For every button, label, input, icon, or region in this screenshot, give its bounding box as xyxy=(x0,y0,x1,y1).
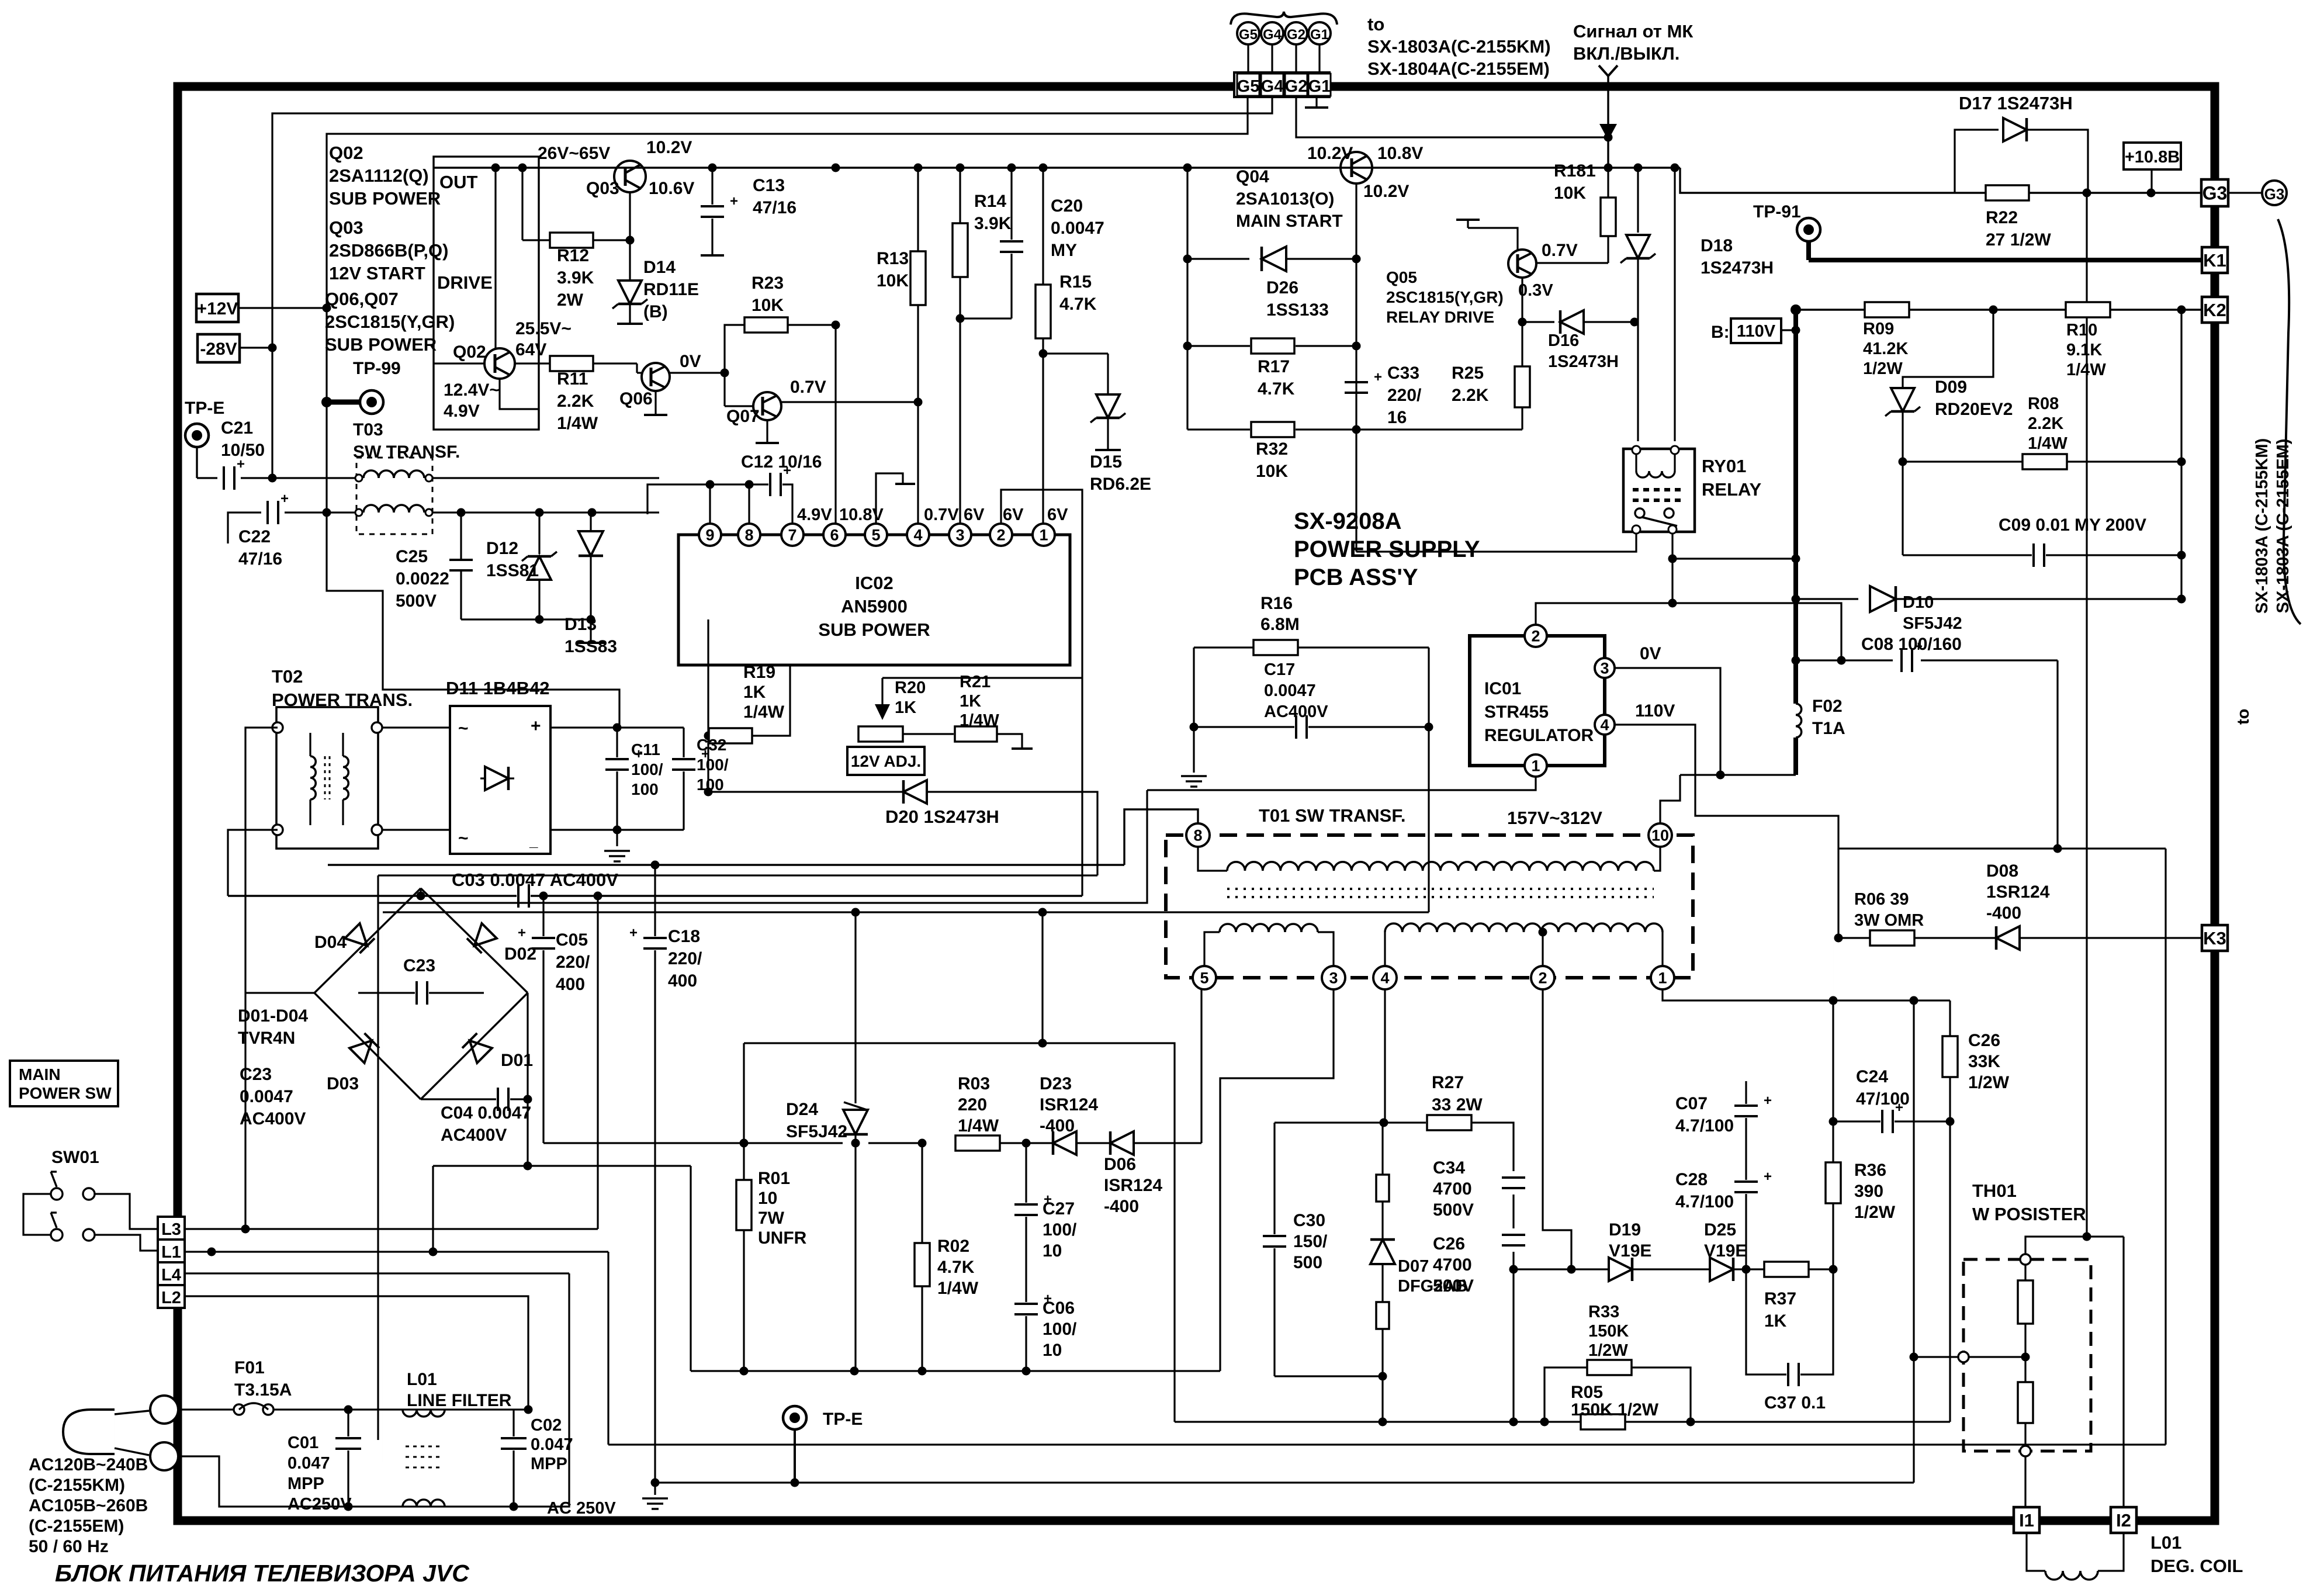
svg-text:100: 100 xyxy=(697,776,724,794)
svg-text:D12: D12 xyxy=(486,539,518,558)
wire D06 riser to T01 pin5 xyxy=(1200,989,1202,1143)
right edge brace xyxy=(2278,219,2301,624)
svg-text:110V: 110V xyxy=(1737,322,1776,341)
capacitor C07 4.7/100 xyxy=(1745,1081,1747,1104)
wire AC net upper long line xyxy=(328,864,1124,865)
transistor Q07 xyxy=(753,392,781,420)
svg-text:C12 10/16: C12 10/16 xyxy=(741,452,822,472)
zener D09 RD20EV2 xyxy=(1891,388,1914,411)
svg-text:1K: 1K xyxy=(960,692,981,711)
svg-text:D14: D14 xyxy=(643,258,676,277)
svg-text:L01: L01 xyxy=(407,1370,437,1389)
connector box L1 xyxy=(158,1240,185,1262)
T03 winding lower xyxy=(355,509,362,516)
potentiometer R20 1K xyxy=(858,726,903,742)
capacitor C28 4.7/100 xyxy=(1734,1180,1758,1183)
svg-text:400: 400 xyxy=(668,971,697,991)
svg-text:0.0022: 0.0022 xyxy=(396,569,449,588)
svg-text:400: 400 xyxy=(556,975,585,994)
connector box I1 xyxy=(2014,1507,2039,1533)
diode D23 ISR124-400 xyxy=(1028,1142,1052,1144)
svg-text:D10: D10 xyxy=(1903,593,1934,612)
svg-text:D20 1S2473H: D20 1S2473H xyxy=(885,806,999,827)
svg-text:0.047: 0.047 xyxy=(288,1454,330,1473)
wire L4 line xyxy=(185,1272,569,1274)
svg-text:_: _ xyxy=(529,832,538,850)
wire R20 feed from pin2 net xyxy=(882,677,1082,678)
voltage box +12V xyxy=(196,294,238,322)
svg-text:1/4W: 1/4W xyxy=(937,1279,979,1298)
svg-text:I1: I1 xyxy=(2019,1510,2034,1531)
svg-text:UNFR: UNFR xyxy=(758,1228,807,1248)
svg-text:220/: 220/ xyxy=(556,953,590,972)
svg-text:R25: R25 xyxy=(1452,363,1484,383)
transistor Q06 xyxy=(642,363,670,391)
capacitor C21 xyxy=(197,477,217,479)
svg-text:DRIVE: DRIVE xyxy=(437,272,493,293)
svg-text:БЛОК ПИТАНИЯ ТЕЛЕВИЗОРА JVC: БЛОК ПИТАНИЯ ТЕЛЕВИЗОРА JVC xyxy=(55,1560,470,1587)
svg-text:D18: D18 xyxy=(1701,236,1733,255)
diode D04 xyxy=(345,923,375,953)
wire staircase T03 to D11 xyxy=(327,513,619,728)
svg-text:3W OMR: 3W OMR xyxy=(1854,911,1924,930)
wire D24 column to return xyxy=(854,1143,856,1371)
svg-text:10: 10 xyxy=(1651,827,1669,844)
TH01 top terminal xyxy=(2020,1254,2031,1265)
IC IC02 AN5900 SUB POWER xyxy=(678,535,1070,665)
diode D19 V19E xyxy=(1514,1268,1608,1270)
switch SW01 upper xyxy=(51,1188,63,1200)
wire bridge left arm xyxy=(245,992,314,993)
svg-text:SX-1803A(C-2155KM): SX-1803A(C-2155KM) xyxy=(1367,36,1551,57)
test point TP-E left xyxy=(185,424,209,447)
svg-text:+: + xyxy=(237,456,245,472)
svg-text:0.0047: 0.0047 xyxy=(1051,219,1104,238)
svg-text:RD6.2E: RD6.2E xyxy=(1090,475,1151,494)
T01 pin 5 xyxy=(1193,966,1216,989)
resistor R23 xyxy=(725,325,744,373)
svg-text:RD11E: RD11E xyxy=(643,280,699,299)
wire -28V xyxy=(240,347,272,348)
svg-text:2SC1815(Y,GR): 2SC1815(Y,GR) xyxy=(325,311,455,332)
svg-text:SF5J42: SF5J42 xyxy=(786,1122,847,1141)
svg-text:R01: R01 xyxy=(758,1169,790,1188)
connector box K3 xyxy=(2202,925,2228,951)
svg-text:R14: R14 xyxy=(974,192,1006,211)
svg-text:K1: K1 xyxy=(2203,250,2226,271)
connector box G3 xyxy=(2201,179,2228,206)
capacitor C17 xyxy=(1193,648,1194,727)
svg-text:1: 1 xyxy=(1531,757,1540,775)
svg-text:L3: L3 xyxy=(161,1220,181,1239)
svg-text:220/: 220/ xyxy=(668,949,702,968)
svg-text:C02: C02 xyxy=(531,1416,562,1435)
wire pin2 to adjust network xyxy=(1001,490,1082,896)
diode D25 V19E xyxy=(1633,1268,1709,1270)
resistor R22 on G3 line xyxy=(1955,192,1985,193)
svg-text:C23: C23 xyxy=(403,956,435,975)
wire pin5 stub xyxy=(876,473,903,524)
capacitor C22 xyxy=(228,513,261,543)
svg-text:R13: R13 xyxy=(877,249,909,268)
svg-text:10.2V: 10.2V xyxy=(1307,144,1353,163)
resistor R37 1K xyxy=(1746,1268,1764,1270)
svg-text:R10: R10 xyxy=(2066,321,2097,340)
resistor R09 xyxy=(1865,302,1909,317)
svg-text:4: 4 xyxy=(1600,716,1609,734)
svg-text:R06 39: R06 39 xyxy=(1854,890,1909,909)
svg-text:500V: 500V xyxy=(1433,1200,1474,1220)
border terminal circles xyxy=(150,1396,178,1424)
svg-text:C32: C32 xyxy=(697,736,726,754)
wire bridge return line xyxy=(433,1165,691,1166)
wire B+ thick bus xyxy=(1793,310,1798,704)
svg-text:D19: D19 xyxy=(1609,1220,1641,1240)
wire F02 0V return xyxy=(1680,774,1796,776)
svg-text:500V: 500V xyxy=(396,591,437,611)
resistor R05 150K 1/2W xyxy=(1581,1414,1625,1429)
TH01 resistor lower xyxy=(2024,1357,2026,1383)
svg-text:+: + xyxy=(518,925,526,941)
svg-text:C21: C21 xyxy=(221,418,253,438)
deg coil L01 xyxy=(2027,1533,2045,1571)
diode D17 1S2473H xyxy=(1955,130,1999,193)
diode D01 xyxy=(462,1033,492,1063)
svg-text:8: 8 xyxy=(744,527,753,544)
svg-text:500: 500 xyxy=(1293,1253,1322,1272)
svg-text:MY: MY xyxy=(1051,241,1077,260)
wire C30 bottom xyxy=(1275,1375,1383,1377)
wire Q07 base xyxy=(723,373,725,406)
svg-text:150/: 150/ xyxy=(1293,1232,1328,1251)
svg-text:G4: G4 xyxy=(1263,27,1282,43)
svg-text:DEG. COIL: DEG. COIL xyxy=(2150,1556,2243,1576)
wire rail to G3 line xyxy=(1680,168,1955,193)
svg-text:W POSISTER: W POSISTER xyxy=(1972,1204,2086,1224)
svg-text:C18: C18 xyxy=(668,927,700,946)
wire Q02 emitter path xyxy=(500,379,539,430)
diode D07 DFG2AB with fusibles xyxy=(1381,1123,1383,1175)
T01 pin 4 xyxy=(1373,966,1397,989)
svg-text:C20: C20 xyxy=(1051,196,1083,216)
TH01 tap xyxy=(1958,1352,1969,1362)
svg-text:Q02: Q02 xyxy=(453,342,486,362)
svg-text:+: + xyxy=(1764,1169,1772,1185)
svg-text:+10.8В: +10.8В xyxy=(2125,148,2180,167)
wire +12V xyxy=(238,307,327,309)
wire SW01 connections xyxy=(23,1194,51,1235)
svg-text:C23: C23 xyxy=(240,1065,272,1084)
capacitor C33 xyxy=(1345,381,1368,383)
wire T02 to D11 xyxy=(382,726,450,728)
resistor R27 33 2W xyxy=(1427,1115,1471,1130)
svg-text:0.7V: 0.7V xyxy=(924,506,959,524)
wire mid long line 2 xyxy=(378,874,1097,876)
svg-text:D15: D15 xyxy=(1090,452,1122,472)
diode D26 1SS133 xyxy=(1187,258,1249,259)
svg-text:G4: G4 xyxy=(1261,77,1284,96)
svg-text:T3.15A: T3.15A xyxy=(234,1380,292,1400)
wire to I2 xyxy=(2122,1237,2124,1508)
wire C08 right leg to 110V xyxy=(2056,660,2058,849)
connector circle G2 xyxy=(1285,22,1307,44)
wire 110V down to K3 line xyxy=(1837,849,1839,938)
svg-text:AC400V: AC400V xyxy=(1264,702,1328,721)
wire snubber distribution line xyxy=(543,1142,843,1144)
IC01 pin 4 xyxy=(1595,715,1615,735)
svg-text:12V ADJ.: 12V ADJ. xyxy=(851,752,921,770)
svg-text:D17 1S2473H: D17 1S2473H xyxy=(1959,93,2073,113)
fuse F02 T1A xyxy=(1796,704,1802,738)
connector circle G1 xyxy=(1308,22,1331,44)
svg-text:R23: R23 xyxy=(751,273,784,293)
svg-text:500V: 500V xyxy=(1433,1276,1474,1296)
svg-text:3.9K: 3.9K xyxy=(974,214,1012,233)
svg-text:4: 4 xyxy=(1380,970,1389,987)
svg-text:C28: C28 xyxy=(1675,1170,1708,1189)
svg-text:1SS83: 1SS83 xyxy=(565,637,617,656)
svg-text:5: 5 xyxy=(1200,970,1208,987)
svg-text:Q04: Q04 xyxy=(1236,167,1269,186)
svg-text:TP-99: TP-99 xyxy=(353,359,401,378)
resistor C26 33K 1/2W xyxy=(1949,1000,1951,1036)
svg-text:1: 1 xyxy=(1658,970,1667,987)
diode D20 1S2473H xyxy=(708,791,902,792)
wire bottom bus 2 xyxy=(656,1481,1914,1483)
svg-text:7W: 7W xyxy=(758,1209,785,1228)
wire K2 line xyxy=(1796,309,2201,310)
resistor R08 xyxy=(1903,461,2023,462)
svg-text:STR455: STR455 xyxy=(1484,702,1549,722)
svg-text:4.7K: 4.7K xyxy=(1059,295,1097,314)
wire T03 upper output xyxy=(429,477,659,479)
wire T01 pin4 column xyxy=(1384,989,1386,1123)
transistor Q05 relay drive xyxy=(1508,250,1536,278)
svg-text:4700: 4700 xyxy=(1433,1179,1472,1199)
resistor R10 xyxy=(2066,302,2110,317)
mains plug xyxy=(63,1410,115,1454)
svg-text:Q03: Q03 xyxy=(586,179,619,198)
wire L3 riser to AC bus xyxy=(597,896,598,1229)
svg-text:AC400V: AC400V xyxy=(441,1126,507,1145)
wire net G2 to on/off signal xyxy=(1296,97,1608,137)
svg-text:D24: D24 xyxy=(786,1100,818,1119)
svg-text:SX-1803A (C-2155EM): SX-1803A (C-2155EM) xyxy=(2274,439,2292,614)
svg-text:6: 6 xyxy=(830,527,839,544)
svg-text:C13: C13 xyxy=(753,176,785,195)
wire IC01 pin3 0V xyxy=(1615,668,1720,775)
capacitor C05 220/400 xyxy=(542,896,544,936)
svg-text:390: 390 xyxy=(1854,1182,1883,1201)
svg-text:-28V: -28V xyxy=(200,340,237,359)
svg-text:1SS133: 1SS133 xyxy=(1266,300,1329,320)
resistor R13 xyxy=(917,168,919,251)
resistor R32 xyxy=(1187,428,1250,430)
resistor R11 xyxy=(515,362,550,364)
svg-text:C33: C33 xyxy=(1387,363,1419,383)
wire left riser lines xyxy=(377,875,379,1440)
svg-text:C09 0.01 MY 200V: C09 0.01 MY 200V xyxy=(1999,515,2146,535)
svg-text:1/2W: 1/2W xyxy=(1968,1073,2010,1092)
svg-text:1S2473H: 1S2473H xyxy=(1548,352,1619,371)
svg-text:R12: R12 xyxy=(557,246,589,265)
relay coil xyxy=(1636,471,1675,477)
switch SW01 lower xyxy=(51,1229,63,1241)
svg-text:SW01: SW01 xyxy=(51,1148,99,1167)
svg-text:SUB POWER: SUB POWER xyxy=(818,619,930,640)
svg-text:REGULATOR: REGULATOR xyxy=(1484,726,1594,745)
svg-text:1/2W: 1/2W xyxy=(1588,1341,1628,1360)
svg-text:R17: R17 xyxy=(1258,357,1290,376)
svg-text:R21: R21 xyxy=(960,673,991,691)
svg-text:10.2V: 10.2V xyxy=(1363,182,1409,201)
transistor Q03 xyxy=(614,161,646,192)
resistor R17 xyxy=(1187,345,1250,347)
svg-text:D26: D26 xyxy=(1266,278,1298,297)
svg-text:Q07: Q07 xyxy=(726,407,760,426)
svg-text:IC01: IC01 xyxy=(1484,679,1521,698)
T01 primary winding xyxy=(1198,847,1227,871)
svg-text:4.9V: 4.9V xyxy=(444,401,480,421)
svg-text:33 2W: 33 2W xyxy=(1432,1095,1483,1114)
label box MAIN POWER SW xyxy=(10,1061,118,1106)
svg-text:Q06,Q07: Q06,Q07 xyxy=(325,289,399,309)
wire relay bottom-right xyxy=(1671,534,1673,603)
svg-text:C04 0.0047: C04 0.0047 xyxy=(441,1103,531,1123)
svg-text:1K: 1K xyxy=(895,698,916,717)
svg-text:16: 16 xyxy=(1387,408,1407,427)
svg-text:150K 1/2W: 150K 1/2W xyxy=(1571,1400,1659,1420)
wire bottom bus 1 xyxy=(608,1443,2166,1445)
svg-text:2SD866B(P,Q): 2SD866B(P,Q) xyxy=(329,240,448,261)
capacitor C18 220/400 xyxy=(654,865,656,936)
svg-text:10.6V: 10.6V xyxy=(649,179,694,198)
wire 110V right drop xyxy=(2165,849,2166,1445)
svg-text:-400: -400 xyxy=(1040,1116,1075,1135)
svg-text:6V: 6V xyxy=(1003,506,1024,524)
svg-text:D07: D07 xyxy=(1398,1257,1429,1276)
resistor R03 220 1/4W xyxy=(955,1135,1000,1151)
IC01 pin 1 xyxy=(1525,754,1547,777)
svg-text:2: 2 xyxy=(996,527,1005,544)
capacitor C24 47/100 xyxy=(1833,1120,1881,1122)
test point TP-99 xyxy=(327,400,360,405)
capacitor C30 150/500 xyxy=(1273,1123,1275,1234)
svg-text:PCB ASS'Y: PCB ASS'Y xyxy=(1294,565,1418,590)
svg-text:+: + xyxy=(730,193,738,209)
svg-text:D23: D23 xyxy=(1040,1074,1072,1093)
svg-text:T1A: T1A xyxy=(1812,719,1845,738)
wire AC net lower line with C03 xyxy=(228,895,517,896)
svg-text:C30: C30 xyxy=(1293,1211,1325,1230)
svg-text:Q06: Q06 xyxy=(619,389,653,408)
resistor R02 4.7K xyxy=(921,1143,923,1243)
transformer T01 dashed box xyxy=(1166,835,1693,978)
svg-text:TVR4N: TVR4N xyxy=(238,1029,295,1048)
wire K2 node drop column xyxy=(2180,310,2182,599)
svg-text:AN5900: AN5900 xyxy=(841,596,908,617)
svg-text:F02: F02 xyxy=(1812,697,1843,716)
svg-text:MPP: MPP xyxy=(288,1474,324,1493)
svg-text:V19E: V19E xyxy=(1609,1241,1651,1261)
svg-text:2SA1112(Q): 2SA1112(Q) xyxy=(329,165,429,186)
svg-text:~: ~ xyxy=(458,829,469,848)
svg-text:R22: R22 xyxy=(1986,208,2018,227)
svg-text:C24: C24 xyxy=(1856,1067,1888,1086)
svg-text:SX-9208A: SX-9208A xyxy=(1294,508,1402,534)
wire +10.8 drop to posistor top xyxy=(2086,193,2087,1237)
T01 secondary right winding xyxy=(1384,932,1386,966)
svg-text:2SA1013(O): 2SA1013(O) xyxy=(1236,189,1334,209)
svg-text:4.9V: 4.9V xyxy=(797,506,832,524)
svg-text:41.2K: 41.2K xyxy=(1863,340,1908,358)
svg-text:5: 5 xyxy=(871,527,880,544)
IC01 pin 2 xyxy=(1525,625,1547,647)
svg-text:0V: 0V xyxy=(1640,644,1661,663)
wire relay bottom-left return xyxy=(1356,534,1636,552)
wire tap column to TH01 xyxy=(1913,1000,1914,1483)
capacitor C27 100/10 xyxy=(1025,1143,1027,1203)
resistor R21 1K xyxy=(903,733,954,735)
svg-text:10: 10 xyxy=(1043,1241,1062,1261)
wire C26 bottom to return xyxy=(1512,1269,1514,1422)
svg-text:G5: G5 xyxy=(1239,27,1258,43)
svg-text:D13: D13 xyxy=(565,615,597,634)
svg-text:MAIN START: MAIN START xyxy=(1236,212,1343,231)
connector box L3 xyxy=(158,1217,185,1240)
wire bottom return wire xyxy=(691,1370,1220,1372)
svg-text:R05: R05 xyxy=(1571,1383,1603,1402)
svg-text:TH01: TH01 xyxy=(1972,1180,2017,1201)
svg-text:-400: -400 xyxy=(1986,903,2021,923)
T02 windings xyxy=(309,733,311,756)
svg-text:1SS81: 1SS81 xyxy=(486,561,539,580)
svg-text:T03: T03 xyxy=(353,420,383,439)
svg-text:0.0047: 0.0047 xyxy=(1264,681,1316,700)
wire bridge apex to AC line xyxy=(420,888,421,896)
capacitor C34 4700 500V xyxy=(1502,1176,1525,1179)
wire Q05 collector flag xyxy=(1468,228,1518,250)
capacitor C09 xyxy=(1903,554,2032,556)
svg-text:ISR124: ISR124 xyxy=(1104,1176,1162,1195)
svg-text:Сигнал от МК: Сигнал от МК xyxy=(1573,21,1693,41)
wire mid long line 4 xyxy=(383,911,1429,913)
capacitor C11 xyxy=(616,728,618,757)
svg-text:1/2W: 1/2W xyxy=(1863,359,1903,378)
fuse F01 T3.15A xyxy=(178,1408,234,1410)
svg-text:C05: C05 xyxy=(556,930,588,950)
svg-text:1/4W: 1/4W xyxy=(743,702,785,722)
svg-text:D25: D25 xyxy=(1704,1220,1736,1240)
svg-text:ISR124: ISR124 xyxy=(1040,1095,1098,1114)
resistor R36 390 1/2W xyxy=(1826,1162,1841,1203)
wire snubber return bus xyxy=(1175,1421,1950,1422)
svg-text:POWER SW: POWER SW xyxy=(19,1084,112,1102)
wire T01 pin10 to 0V net xyxy=(1660,775,1680,824)
svg-text:1/4W: 1/4W xyxy=(960,711,999,730)
svg-text:1S2473H: 1S2473H xyxy=(1701,258,1774,278)
svg-text:3: 3 xyxy=(955,527,964,544)
svg-text:R02: R02 xyxy=(937,1237,969,1256)
svg-text:OUT: OUT xyxy=(439,172,478,192)
svg-text:R181: R181 xyxy=(1554,161,1596,181)
thyristor D24 SF5J42 xyxy=(854,912,856,1103)
svg-text:TP-91: TP-91 xyxy=(1753,202,1801,221)
wire Q06 collector 0V xyxy=(670,372,725,373)
relay core dashes xyxy=(1633,488,1685,491)
svg-text:9: 9 xyxy=(705,527,714,544)
wire R23 node to IC02 pin6 xyxy=(834,325,836,524)
